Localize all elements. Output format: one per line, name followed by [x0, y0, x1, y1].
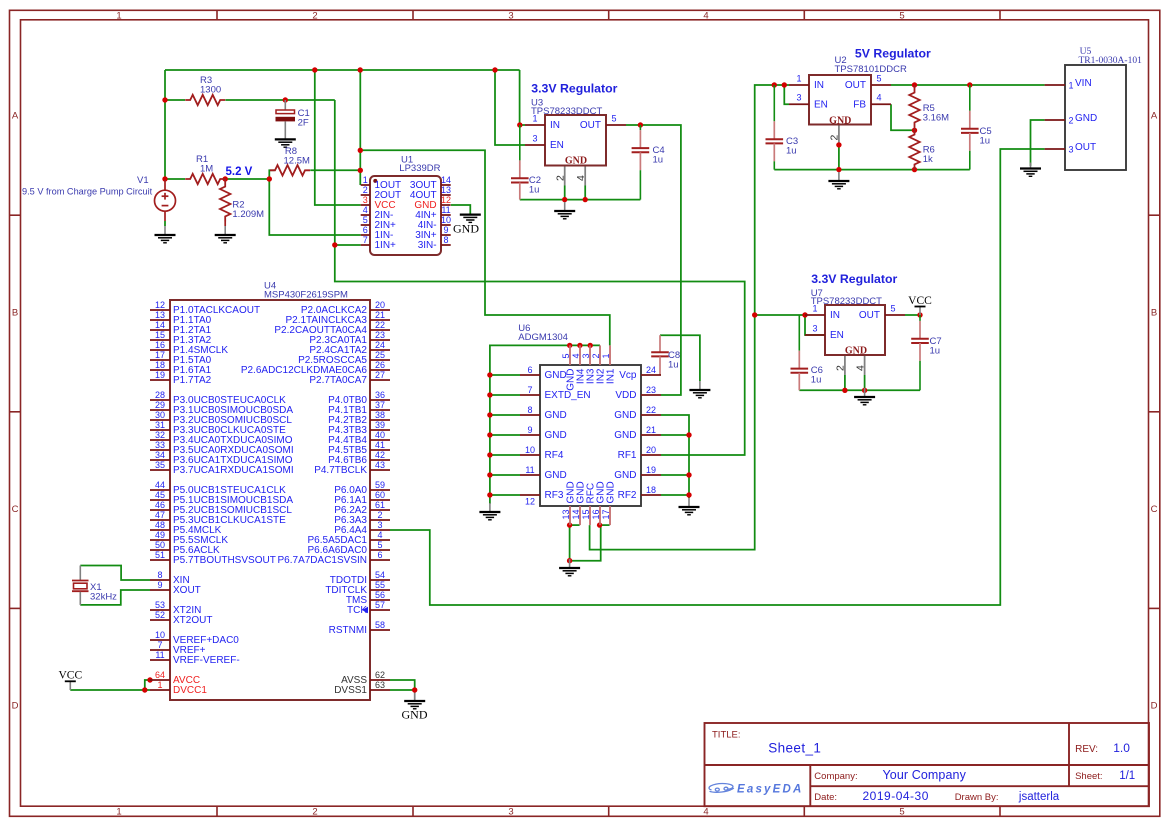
wire U2 ground rail [774, 169, 970, 171]
junction [562, 197, 567, 202]
svg-text:GND: GND [845, 345, 867, 356]
svg-text:6: 6 [527, 365, 532, 375]
wire U7 pin2 stub [844, 355, 846, 375]
svg-text:13: 13 [561, 509, 571, 519]
svg-text:GND: GND [545, 410, 567, 421]
svg-text:48: 48 [155, 520, 165, 530]
svg-text:VCC: VCC [58, 670, 82, 682]
U4 pin 35 P3.7UCA1RXDUCA1SOMI [150, 469, 170, 471]
svg-text:6: 6 [363, 225, 368, 235]
svg-text:5: 5 [363, 215, 368, 225]
U6 pin 1 IN1 (top) [609, 345, 611, 365]
wire top rail to U3 EN [495, 70, 525, 145]
svg-text:38: 38 [375, 410, 385, 420]
svg-text:2: 2 [835, 365, 847, 371]
svg-text:GND: GND [565, 155, 587, 166]
U4 pin 44 P5.0UCB1STEUCA1CLK [150, 489, 170, 491]
junction [967, 82, 972, 87]
U4 pin 17 P1.5TA0 [150, 359, 170, 361]
wire comparator output loop to U6 IN1 [360, 150, 610, 345]
wire R8 left drop to 5.2V node [269, 170, 274, 179]
svg-text:10: 10 [155, 630, 165, 640]
svg-text:16: 16 [155, 340, 165, 350]
U4 pin 48 P5.4MCLK [150, 529, 170, 531]
svg-text:61: 61 [375, 500, 385, 510]
svg-text:FB: FB [853, 99, 866, 110]
U4 pin 38 P4.2TB2 [370, 419, 390, 421]
svg-text:36: 36 [375, 390, 385, 400]
svg-text:GND: GND [614, 410, 636, 421]
svg-text:52: 52 [155, 610, 165, 620]
wire U7 OUT to VCC / C7 [905, 314, 920, 316]
svg-text:29: 29 [155, 400, 165, 410]
svg-text:IN: IN [814, 80, 824, 91]
junction [912, 167, 917, 172]
U4 pin 14 P1.2TA1 [150, 329, 170, 331]
U6 pin 18 RF2 [641, 494, 661, 496]
svg-text:Date:: Date: [814, 792, 837, 803]
ground for V1 [155, 226, 176, 243]
wire U3 ground rail [520, 199, 641, 201]
U6 pin 12 RF3 [520, 494, 540, 496]
svg-text:P5.7TBOUTHSVSOUT: P5.7TBOUTHSVSOUT [173, 555, 276, 566]
ground for R2 [215, 226, 236, 243]
svg-text:MSP430F2619SPM: MSP430F2619SPM [264, 290, 348, 301]
U1 pin 11 4IN+ [441, 214, 451, 216]
svg-text:P6.7A7DAC1SVSIN: P6.7A7DAC1SVSIN [278, 555, 368, 566]
svg-text:33: 33 [155, 440, 165, 450]
svg-text:5V Regulator: 5V Regulator [855, 47, 931, 61]
U4 pin 21 P2.1TAINCLKCA3 [370, 319, 390, 321]
junction [577, 343, 582, 348]
svg-text:2: 2 [312, 11, 317, 22]
svg-text:RF2: RF2 [618, 490, 637, 501]
svg-text:22: 22 [375, 320, 385, 330]
U6 pin 9 GND [520, 434, 540, 436]
svg-text:GND: GND [545, 470, 567, 481]
wire U2 EN jog [784, 85, 789, 104]
junction [597, 522, 602, 527]
U4 pin 64 AVCC [150, 679, 170, 681]
voltage source V1 [155, 180, 176, 221]
U4 pin 37 P4.1TB1 [370, 409, 390, 411]
U6 pin 17 GND (bottom) [609, 506, 611, 525]
wire X1 to XOUT [80, 590, 150, 605]
resistor R3 [185, 95, 225, 105]
capacitor C7 [911, 315, 929, 390]
junction [332, 242, 337, 247]
IC U4 MSP430F2619SPM [170, 300, 370, 700]
wire V1 vertical feed [164, 70, 166, 180]
svg-text:1: 1 [812, 304, 817, 314]
U6 pin 8 GND [520, 414, 540, 416]
U4 pin 60 P6.1A1 [370, 499, 390, 501]
U6 pin 19 GND [641, 474, 661, 476]
U4 pin 57 TCK [370, 609, 390, 611]
U4 pin 24 P2.4CA1TA2 [370, 349, 390, 351]
junction [487, 392, 492, 397]
U1 pin 10 4IN- [441, 224, 451, 226]
svg-text:3: 3 [377, 520, 382, 530]
junction [912, 128, 917, 133]
resistor R5 [909, 88, 919, 128]
svg-text:TR1-0030A-101: TR1-0030A-101 [1079, 56, 1143, 66]
svg-text:4: 4 [876, 93, 881, 103]
U6 pin 10 RF4 [520, 454, 540, 456]
junction [412, 687, 417, 692]
U4 pin 61 P6.2A2 [370, 509, 390, 511]
svg-text:2: 2 [591, 353, 601, 358]
svg-text:32kHz: 32kHz [90, 592, 117, 603]
svg-text:21: 21 [375, 310, 385, 320]
svg-text:3: 3 [508, 11, 513, 22]
ground at U1 GND [460, 215, 481, 223]
svg-text:RF4: RF4 [545, 450, 564, 461]
U4 pin 23 P2.3CA0TA1 [370, 339, 390, 341]
svg-text:OUT: OUT [580, 120, 601, 131]
svg-text:23: 23 [646, 385, 656, 395]
svg-text:GND: GND [614, 470, 636, 481]
svg-text:59: 59 [375, 480, 385, 490]
svg-text:IN: IN [550, 120, 560, 131]
U7 pin 1 IN [805, 314, 825, 316]
wire R3 row [165, 99, 185, 101]
svg-text:2: 2 [829, 135, 841, 141]
wire RFC net vertical: U2 IN / U7 IN / U6 RFC [590, 85, 789, 550]
wire 5.2V to U1 1IN- [269, 179, 360, 235]
wire U6 left pin row [490, 394, 520, 396]
svg-text:1M: 1M [200, 164, 213, 175]
svg-text:12.5M: 12.5M [284, 156, 310, 167]
svg-text:3: 3 [1069, 145, 1074, 155]
wire AVSS/DVSS1 to ground [390, 680, 415, 690]
svg-text:ADGM1304: ADGM1304 [518, 332, 568, 343]
wire X1 to XIN [80, 566, 150, 581]
svg-text:1: 1 [116, 11, 121, 22]
U1 pin 4 2IN- [361, 214, 370, 216]
junction [142, 687, 147, 692]
svg-text:54: 54 [375, 570, 385, 580]
junction [686, 492, 691, 497]
svg-text:2: 2 [555, 175, 567, 181]
U4 pin 13 P1.1TA0 [150, 319, 170, 321]
svg-text:4: 4 [703, 11, 708, 22]
svg-text:C: C [1151, 504, 1158, 515]
U1 pin 6 1IN- [361, 234, 370, 236]
junction [836, 167, 841, 172]
svg-text:49: 49 [155, 530, 165, 540]
U4 pin 63 DVSS1 [370, 689, 390, 691]
svg-text:Your Company: Your Company [883, 768, 967, 782]
resistor R1 [185, 174, 225, 184]
U4 pin 18 P1.6TA1 [150, 369, 170, 371]
svg-text:EasyEDA: EasyEDA [737, 784, 804, 796]
svg-text:37: 37 [375, 400, 385, 410]
svg-text:jsatterla: jsatterla [1018, 791, 1060, 803]
U6 pin 22 GND [641, 414, 661, 416]
svg-text:7: 7 [363, 235, 368, 245]
U6 pin 15 RFC (bottom) [589, 506, 591, 525]
svg-text:4: 4 [571, 353, 581, 358]
svg-text:31: 31 [155, 420, 165, 430]
U1 pin 9 3IN+ [441, 234, 451, 236]
U4 pin 27 P2.7TA0CA7 [370, 379, 390, 381]
U4 pin 36 P4.0TB0 [370, 399, 390, 401]
U4 pin 52 XT2OUT [150, 619, 170, 621]
svg-text:9.5 V from Charge Pump Circuit: 9.5 V from Charge Pump Circuit [22, 187, 153, 197]
svg-text:2F: 2F [298, 118, 309, 129]
wire 9.5V top rail [165, 69, 520, 71]
svg-text:1u: 1u [653, 155, 664, 166]
svg-text:11: 11 [441, 205, 450, 215]
svg-text:19: 19 [646, 465, 656, 475]
svg-text:12: 12 [155, 300, 165, 310]
wire U6 left pin row [490, 494, 520, 496]
svg-text:TPS78233DDCT: TPS78233DDCT [811, 296, 882, 307]
svg-text:GND: GND [545, 370, 567, 381]
svg-text:A: A [12, 111, 19, 122]
svg-text:VIN: VIN [1075, 78, 1092, 89]
svg-text:5: 5 [561, 353, 571, 358]
svg-text:Sheet:: Sheet: [1075, 771, 1102, 782]
U4 pin 11 VREF-VEREF- [150, 659, 170, 661]
svg-text:3: 3 [796, 93, 801, 103]
junction [487, 372, 492, 377]
VCC symbol at U7 OUT [919, 307, 921, 315]
junction [912, 82, 917, 87]
svg-text:9: 9 [157, 580, 162, 590]
svg-text:16: 16 [591, 509, 601, 519]
U3 pin 1 IN [525, 124, 545, 126]
svg-text:A: A [1151, 111, 1158, 122]
svg-text:20: 20 [375, 300, 385, 310]
svg-text:3: 3 [812, 324, 817, 334]
junction [802, 312, 807, 317]
U4 pin 56 TMS [370, 599, 390, 601]
wire C8 top to ground [660, 335, 700, 381]
ground at U6 bottom [559, 559, 580, 576]
U6 pin 14 GND (bottom) [579, 506, 581, 525]
svg-text:4: 4 [854, 365, 866, 371]
U5 pin 1 VIN [1045, 84, 1065, 86]
junction [686, 472, 691, 477]
junction [487, 432, 492, 437]
U2 pin 4 FB [871, 103, 891, 105]
U4 pin 6 P6.7A7DAC1SVSIN [370, 559, 390, 561]
svg-text:5.2 V: 5.2 V [226, 166, 253, 178]
svg-text:14: 14 [441, 175, 451, 185]
U4 pin 29 P3.1UCB0SIMOUCB0SDA [150, 409, 170, 411]
U4 pin 1 DVCC1 [150, 689, 170, 691]
U4 pin 49 P5.5SMCLK [150, 539, 170, 541]
svg-text:62: 62 [375, 670, 385, 680]
junction [917, 312, 922, 317]
wire U3 pin4 stub [584, 166, 586, 186]
wire U6 left pin row [490, 434, 520, 436]
svg-text:1IN+: 1IN+ [375, 240, 397, 251]
wire U7 EN jog [805, 315, 825, 335]
wire U1 pin1 vertical from top rail [359, 70, 361, 185]
U4 pin 40 P4.4TB4 [370, 439, 390, 441]
U4 pin 22 P2.2CAOUTTA0CA4 [370, 329, 390, 331]
U4 pin 10 VEREF+DAC0 [150, 639, 170, 641]
U6 pin 21 GND [641, 434, 661, 436]
ground for C1 [275, 139, 296, 147]
svg-text:2: 2 [363, 185, 368, 195]
svg-text:1u: 1u [786, 146, 797, 157]
svg-text:5: 5 [899, 807, 904, 818]
svg-text:TITLE:: TITLE: [712, 730, 741, 741]
crystal X1 32kHz [72, 566, 89, 605]
svg-text:30: 30 [155, 410, 165, 420]
wire U2 FB jog to R5/R6 [891, 104, 915, 130]
svg-text:1: 1 [601, 353, 611, 358]
svg-text:13: 13 [441, 185, 451, 195]
svg-text:D: D [12, 701, 19, 712]
junction [772, 82, 777, 87]
svg-text:17: 17 [155, 350, 165, 360]
svg-text:63: 63 [375, 680, 385, 690]
U4 pin 20 P2.0ACLKCA2 [370, 309, 390, 311]
wire R8 right to U1 pin1 [310, 169, 360, 171]
svg-text:1/1: 1/1 [1119, 770, 1135, 782]
U1 pin 12 GND [441, 204, 451, 206]
svg-text:4: 4 [575, 175, 587, 181]
junction [567, 558, 572, 563]
svg-text:1: 1 [116, 807, 121, 818]
wire U6 left pin row [490, 414, 520, 416]
svg-text:64: 64 [155, 670, 165, 680]
U2 pin 1 IN [789, 84, 809, 86]
IC U7 TPS78233DDCT [825, 305, 885, 355]
junction [358, 148, 363, 153]
U6 pin 7 EXTD_EN [520, 394, 540, 396]
wire U3 OUT to U6 VDD [626, 125, 681, 395]
svg-text:GND: GND [606, 481, 617, 503]
svg-text:28: 28 [155, 390, 165, 400]
wire VCC to DVCC1/AVCC [70, 689, 150, 691]
U4 pin 25 P2.5ROSCCA5 [370, 359, 390, 361]
svg-text:LP339DR: LP339DR [399, 163, 440, 174]
svg-text:TPS78101DDCR: TPS78101DDCR [835, 64, 907, 75]
U4 pin 43 P4.7TBCLK [370, 469, 390, 471]
svg-text:VREF-VEREF-: VREF-VEREF- [173, 655, 240, 666]
capacitor C5 [961, 85, 979, 170]
U4 pin 32 P3.4UCA0TXDUCA0SIMO [150, 439, 170, 441]
U3 pin 5 OUT [606, 124, 626, 126]
wire U6 left ground rail [490, 345, 600, 504]
svg-text:55: 55 [375, 580, 385, 590]
svg-text:12: 12 [441, 195, 451, 205]
svg-text:OUT: OUT [845, 80, 866, 91]
junction [583, 197, 588, 202]
U4 pin 54 TDOTDI [370, 579, 390, 581]
U4 pin 16 P1.4SMCLK [150, 349, 170, 351]
title block [705, 723, 1150, 806]
svg-text:18: 18 [646, 485, 656, 495]
junction [223, 176, 228, 181]
svg-text:TPS78233DDCT: TPS78233DDCT [531, 106, 602, 117]
svg-text:1: 1 [363, 175, 368, 185]
svg-text:3: 3 [508, 807, 513, 818]
svg-text:1u: 1u [930, 346, 941, 357]
capacitor C1 [276, 100, 296, 139]
wire U5 GND to ground [1031, 120, 1045, 166]
junction [147, 677, 152, 682]
U2 pin 3 EN [789, 103, 809, 105]
junction [312, 67, 317, 72]
svg-text:RSTNMI: RSTNMI [329, 625, 367, 636]
svg-text:GND: GND [829, 115, 851, 126]
svg-text:17: 17 [601, 509, 611, 519]
svg-text:1u: 1u [529, 185, 540, 196]
svg-text:VCC: VCC [908, 295, 932, 307]
svg-text:58: 58 [375, 620, 385, 630]
svg-text:3.3V Regulator: 3.3V Regulator [531, 82, 617, 96]
svg-text:1300: 1300 [200, 85, 221, 96]
svg-text:2: 2 [377, 510, 382, 520]
svg-text:1u: 1u [980, 136, 991, 147]
U4 pin 30 P3.2UCB0SOMIUCB0SCL [150, 419, 170, 421]
svg-text:24: 24 [646, 365, 656, 375]
svg-text:5: 5 [890, 304, 895, 314]
svg-text:10: 10 [525, 445, 535, 455]
IC U3 TPS78233DDCT [545, 115, 606, 166]
svg-text:9: 9 [443, 225, 448, 235]
svg-text:1: 1 [532, 114, 537, 124]
svg-text:34: 34 [155, 450, 165, 460]
svg-text:B: B [12, 308, 18, 319]
svg-text:45: 45 [155, 490, 165, 500]
U1 pin 5 2IN+ [361, 224, 370, 226]
svg-text:4: 4 [363, 205, 368, 215]
svg-text:GND: GND [453, 221, 479, 235]
U4 pin 19 P1.7TA2 [150, 379, 170, 381]
junction [487, 412, 492, 417]
svg-text:21: 21 [646, 425, 656, 435]
svg-text:GND: GND [614, 430, 636, 441]
U4 pin 59 P6.0A0 [370, 489, 390, 491]
svg-text:39: 39 [375, 420, 385, 430]
wire U5 OUT to U4 P6.4A4 [390, 149, 1045, 605]
op-amp U1 LP339DR [370, 176, 441, 255]
svg-text:11: 11 [155, 650, 164, 660]
capacitor C8 [651, 335, 669, 375]
U6 pin 6 GND [520, 374, 540, 376]
svg-text:22: 22 [646, 405, 656, 415]
svg-text:4: 4 [377, 530, 382, 540]
U4 pin 47 P5.3UCB1CLKUCA1STE [150, 519, 170, 521]
capacitor C6 [791, 315, 809, 390]
svg-text:24: 24 [375, 340, 385, 350]
U6 pin 16 GND (bottom) [599, 506, 601, 525]
U4 pin 33 P3.5UCA0RXDUCA0SOMI [150, 449, 170, 451]
svg-text:P1.7TA2: P1.7TA2 [173, 375, 212, 386]
svg-text:V1: V1 [137, 175, 149, 186]
svg-text:REV:: REV: [1075, 744, 1098, 755]
junction [782, 82, 787, 87]
svg-text:DVCC1: DVCC1 [173, 685, 207, 696]
capacitor C4 [632, 125, 650, 200]
ground at U7 [854, 388, 875, 405]
svg-text:3: 3 [532, 134, 537, 144]
wire U7 ground rail [799, 389, 920, 391]
U4 pin 31 P3.3UCB0CLKUCA0STE [150, 429, 170, 431]
svg-text:1k: 1k [923, 154, 933, 165]
wire U3 pin2 stub [564, 166, 566, 186]
ground at U4 AVSS [404, 701, 425, 709]
U4 pin 26 P2.6ADC12CLKDMAE0CA6 [370, 369, 390, 371]
